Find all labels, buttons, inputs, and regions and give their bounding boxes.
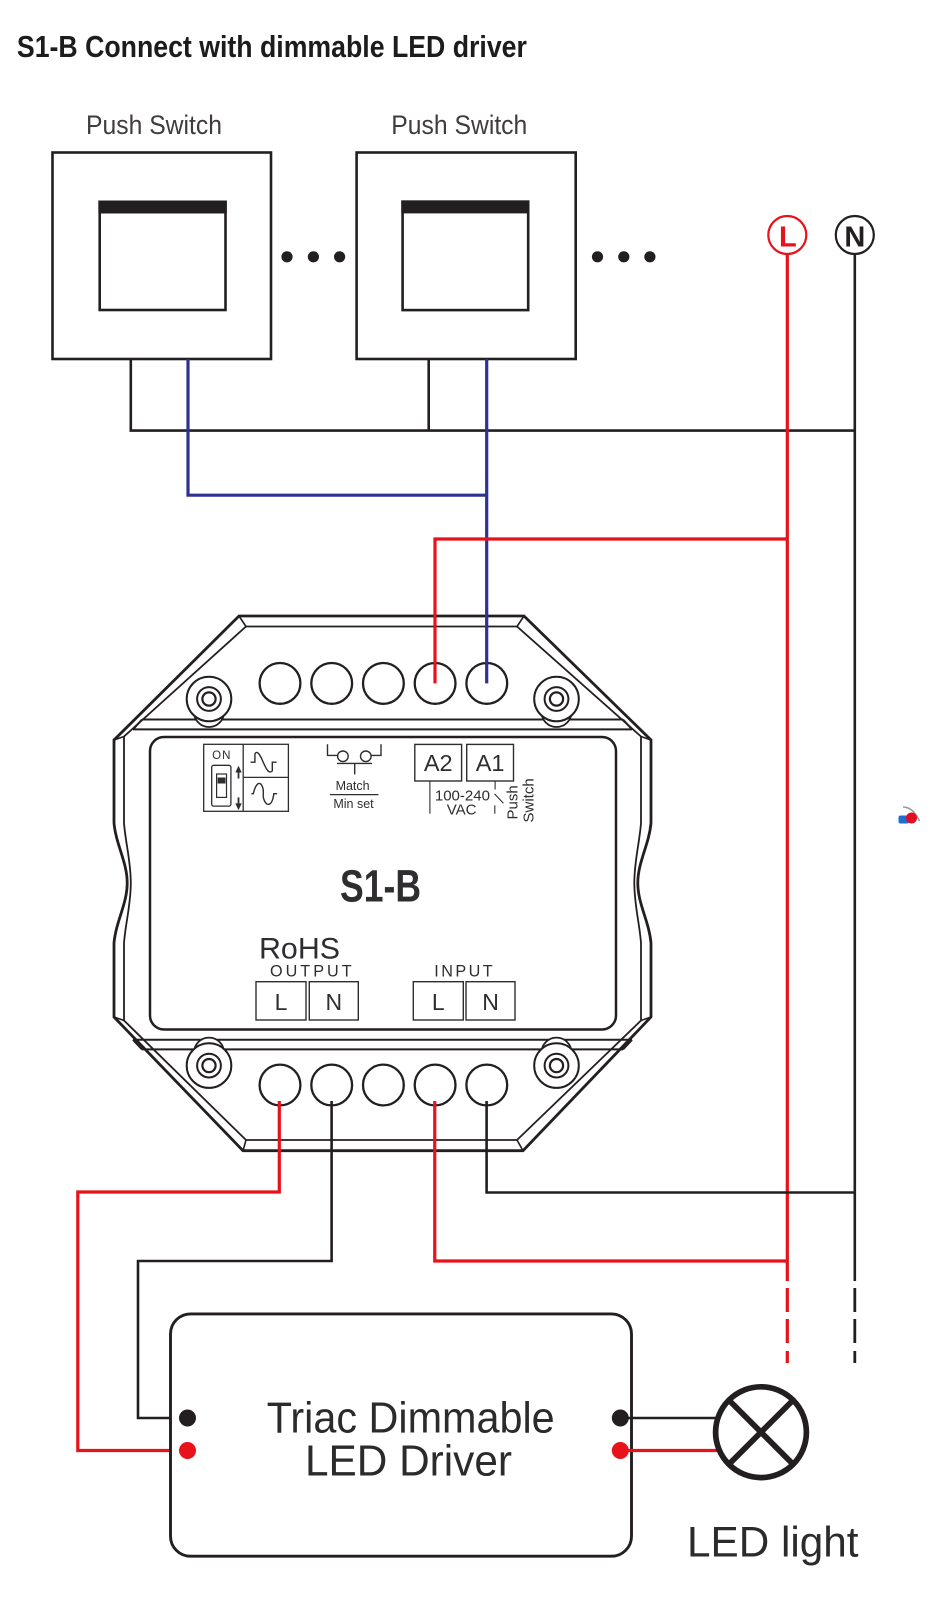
ellipsis after SW2 [592, 251, 656, 262]
node L [768, 216, 806, 254]
screw boss top-left [187, 677, 232, 727]
INPUT terminal boxes L N [413, 982, 515, 1020]
wire L dashed continuation [786, 1288, 789, 1363]
bottom terminals row [260, 1065, 508, 1106]
wire red driver to LED [620, 1449, 717, 1452]
svg-text:VAC: VAC [447, 801, 477, 818]
push switch contact symbol [495, 781, 504, 814]
terminal label A1 [467, 744, 514, 781]
OUTPUT terminal boxes L N [256, 982, 358, 1020]
device outer octagon [114, 616, 651, 1151]
wire red INPUT L to L line [435, 1101, 788, 1261]
push switch SW1 [53, 153, 272, 360]
wire black switch bus to N [130, 429, 855, 432]
wire L vertical [786, 254, 789, 1281]
dimmer S1-B device [114, 616, 651, 1151]
up arrow [235, 766, 241, 779]
svg-text:A1: A1 [476, 750, 505, 776]
DIP switch drawing [212, 765, 231, 806]
svg-text:LED light: LED light [687, 1519, 859, 1567]
wire N dashed continuation [853, 1288, 856, 1363]
wire N vertical [853, 254, 856, 1281]
wire blue from SW2 to terminal A1 [485, 359, 488, 683]
svg-text:Push Switch: Push Switch [391, 110, 527, 140]
screw boss top-right [534, 677, 579, 727]
svg-text:N: N [844, 222, 865, 254]
svg-text:RoHS: RoHS [259, 933, 340, 966]
svg-text:N: N [325, 989, 342, 1015]
wire black driver to LED [620, 1417, 716, 1420]
waveform trailing edge [251, 783, 277, 804]
svg-text:LED Driver: LED Driver [305, 1437, 512, 1486]
screw boss bottom-right [534, 1038, 579, 1088]
svg-text:Match: Match [336, 779, 370, 793]
node N [836, 216, 874, 254]
svg-text:INPUT: INPUT [434, 963, 493, 981]
match button symbol [328, 744, 382, 774]
svg-text:L: L [275, 989, 288, 1015]
svg-text:ON: ON [212, 750, 231, 762]
ellipsis after SW1 [281, 251, 345, 262]
svg-text:S1-B: S1-B [340, 861, 421, 912]
wire black from SW2 [427, 359, 430, 431]
wire blue from SW1 [188, 359, 487, 495]
svg-text:Push Switch: Push Switch [86, 110, 222, 140]
waveform leading edge [251, 752, 277, 772]
watermark fragment [899, 807, 920, 824]
top terminals row [260, 663, 508, 704]
svg-text:L: L [432, 989, 445, 1015]
driver terminal dots [179, 1410, 196, 1427]
dimming mode selector box [204, 744, 289, 811]
down arrow [235, 797, 241, 810]
svg-text:S1-B Connect with dimmable LED: S1-B Connect with dimmable LED driver [17, 30, 527, 64]
svg-text:Triac Dimmable: Triac Dimmable [267, 1394, 555, 1443]
wire red OUTPUT L to driver [78, 1101, 279, 1451]
bevel corner connectors [114, 616, 651, 1151]
wire red L branch to terminal A2 [435, 539, 787, 683]
wire black OUTPUT N to driver [138, 1101, 332, 1418]
LED lamp symbol [716, 1387, 807, 1478]
svg-text:L: L [779, 222, 797, 254]
svg-text:N: N [482, 989, 499, 1015]
svg-text:Min set: Min set [333, 797, 374, 811]
svg-text:Push: Push [505, 785, 522, 819]
svg-text:Switch: Switch [521, 778, 538, 822]
leader line A2 [429, 781, 431, 814]
screw boss bottom-left [187, 1038, 232, 1088]
wire black INPUT N to N line [487, 1101, 855, 1193]
inner body plate [150, 737, 616, 1030]
deck ledge lines [133, 720, 632, 1050]
device inner bevel outline [124, 627, 641, 1141]
svg-text:A2: A2 [424, 750, 453, 776]
SW1 rocker top bar [98, 201, 226, 214]
terminal label A2 [415, 744, 462, 781]
wire black from SW1 [130, 359, 133, 431]
push switch SW2 [357, 153, 576, 360]
triac dimmable LED driver box [171, 1314, 632, 1556]
SW2 rocker top bar [401, 200, 529, 213]
